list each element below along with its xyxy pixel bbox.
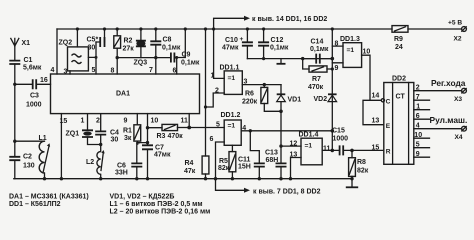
svg-text:+: +	[240, 36, 244, 43]
svg-text:8: 8	[111, 68, 115, 75]
svg-text:VD1, VD2 – КД522Б: VD1, VD2 – КД522Б	[110, 194, 175, 201]
svg-text:C10: C10	[225, 37, 238, 44]
svg-text:C7: C7	[155, 145, 164, 152]
svg-text:R8: R8	[357, 159, 366, 166]
svg-text:470к: 470к	[308, 84, 324, 91]
svg-text:=1: =1	[347, 47, 355, 54]
svg-text:7: 7	[149, 67, 153, 74]
svg-text:DD1.3: DD1.3	[340, 36, 360, 43]
svg-text:R7: R7	[312, 76, 321, 83]
svg-text:47мк: 47мк	[154, 152, 171, 159]
svg-text:+: +	[136, 140, 140, 147]
svg-text:DD1.2: DD1.2	[221, 112, 241, 119]
svg-text:C13: C13	[265, 150, 278, 157]
svg-text:1000: 1000	[26, 102, 42, 109]
svg-text:6: 6	[173, 68, 177, 75]
svg-text:220к: 220к	[242, 99, 258, 106]
svg-text:2: 2	[416, 85, 420, 92]
svg-text:C12: C12	[271, 37, 284, 44]
svg-text:15: 15	[60, 118, 68, 125]
svg-text:DA1: DA1	[116, 91, 130, 98]
svg-text:11: 11	[181, 118, 189, 125]
svg-text:1: 1	[416, 104, 420, 111]
svg-text:C4: C4	[110, 130, 119, 137]
svg-text:R5: R5	[219, 158, 228, 165]
svg-text:к выв. 7 DD1, 8 DD2: к выв. 7 DD1, 8 DD2	[253, 188, 321, 195]
svg-text:=1: =1	[228, 123, 236, 130]
svg-text:=1: =1	[305, 143, 313, 150]
svg-text:4: 4	[51, 67, 55, 74]
svg-text:2: 2	[96, 118, 100, 125]
svg-text:14: 14	[372, 93, 380, 100]
svg-text:470к: 470к	[168, 133, 184, 140]
svg-text:8: 8	[335, 40, 339, 47]
svg-text:9: 9	[416, 151, 420, 158]
svg-text:+5 В: +5 В	[448, 20, 462, 27]
svg-text:R9: R9	[394, 36, 403, 43]
svg-text:Рул.маш.: Рул.маш.	[430, 115, 468, 125]
svg-text:DD1.4: DD1.4	[299, 132, 319, 139]
svg-text:33Н: 33Н	[115, 170, 128, 177]
svg-text:к выв. 14 DD1, 16 DD2: к выв. 14 DD1, 16 DD2	[252, 16, 327, 23]
svg-text:82к: 82к	[357, 168, 369, 175]
svg-text:15: 15	[372, 145, 380, 152]
svg-text:82к: 82к	[218, 165, 230, 172]
svg-text:1: 1	[211, 73, 215, 80]
svg-text:0,1мк: 0,1мк	[310, 46, 329, 53]
svg-text:27к: 27к	[123, 46, 135, 53]
svg-text:3к: 3к	[124, 135, 132, 142]
svg-text:X1: X1	[22, 40, 31, 47]
svg-text:10: 10	[151, 118, 159, 125]
svg-text:R2: R2	[124, 38, 133, 45]
svg-text:C5*: C5*	[87, 37, 99, 44]
svg-text:16: 16	[40, 77, 48, 84]
svg-text:68Н: 68Н	[266, 157, 279, 164]
svg-text:C3: C3	[30, 93, 39, 100]
svg-text:L2 – 20 витков ПЭВ-2 0,16 мм: L2 – 20 витков ПЭВ-2 0,16 мм	[110, 209, 211, 216]
svg-text:130: 130	[23, 163, 35, 170]
svg-text:13: 13	[372, 118, 380, 125]
svg-text:Рег.хода: Рег.хода	[431, 78, 466, 88]
svg-text:10: 10	[363, 49, 371, 56]
svg-text:C11: C11	[238, 157, 251, 164]
svg-text:C: C	[386, 98, 391, 105]
svg-text:2: 2	[215, 88, 219, 95]
svg-text:0,1мк: 0,1мк	[270, 45, 289, 52]
svg-text:DA1 – MC3361 (КА3361): DA1 – MC3361 (КА3361)	[9, 194, 89, 201]
svg-text:47к: 47к	[184, 168, 196, 175]
svg-text:L2: L2	[86, 159, 94, 166]
svg-text:X3: X3	[454, 96, 462, 103]
svg-text:5: 5	[216, 122, 220, 129]
svg-text:R: R	[386, 148, 391, 155]
svg-text:5: 5	[92, 67, 96, 74]
svg-text:X4: X4	[455, 134, 463, 141]
svg-text:C15: C15	[332, 128, 345, 135]
svg-text:5: 5	[416, 142, 420, 149]
svg-text:7: 7	[416, 94, 420, 101]
svg-text:=1: =1	[228, 75, 236, 82]
svg-text:12: 12	[290, 140, 298, 147]
svg-text:4: 4	[416, 123, 420, 130]
svg-text:R4: R4	[185, 160, 194, 167]
svg-text:0,1мк: 0,1мк	[162, 45, 181, 52]
svg-text:C6: C6	[117, 163, 126, 170]
svg-text:30: 30	[111, 137, 119, 144]
svg-text:CT: CT	[396, 94, 406, 101]
svg-text:L1 – 6 витков ПЭВ-2 0,5 мм: L1 – 6 витков ПЭВ-2 0,5 мм	[110, 201, 203, 208]
svg-text:11: 11	[323, 146, 331, 153]
svg-text:VD2: VD2	[314, 96, 328, 103]
svg-text:DD2: DD2	[392, 76, 406, 83]
svg-text:C1: C1	[24, 57, 33, 64]
svg-text:9: 9	[335, 65, 339, 72]
svg-text:R3: R3	[157, 133, 166, 140]
svg-text:24: 24	[395, 44, 403, 51]
svg-text:6: 6	[416, 113, 420, 120]
svg-text:6: 6	[210, 136, 214, 143]
svg-text:30: 30	[88, 45, 96, 52]
svg-text:C8: C8	[163, 37, 172, 44]
svg-text:E: E	[386, 123, 391, 130]
svg-text:47мк: 47мк	[222, 45, 239, 52]
svg-text:1000: 1000	[333, 136, 349, 143]
svg-text:1: 1	[81, 118, 85, 125]
svg-text:15Н: 15Н	[238, 164, 251, 171]
svg-text:10: 10	[414, 132, 422, 139]
svg-text:R6: R6	[245, 91, 254, 98]
svg-text:ZQ3: ZQ3	[134, 60, 148, 67]
svg-text:ZQ2: ZQ2	[59, 40, 73, 47]
svg-text:DD1.1: DD1.1	[220, 65, 240, 72]
svg-text:C2: C2	[23, 154, 32, 161]
svg-text:X2: X2	[454, 36, 462, 43]
svg-text:VD1: VD1	[288, 96, 302, 103]
svg-text:ZQ1: ZQ1	[66, 131, 80, 138]
svg-text:DD1 – К561ЛП2: DD1 – К561ЛП2	[9, 201, 61, 208]
svg-text:0,1мк: 0,1мк	[181, 60, 200, 67]
svg-text:5,6мк: 5,6мк	[23, 65, 42, 72]
svg-text:C14: C14	[311, 39, 324, 46]
svg-text:R1: R1	[123, 128, 132, 135]
svg-text:9: 9	[124, 118, 128, 125]
